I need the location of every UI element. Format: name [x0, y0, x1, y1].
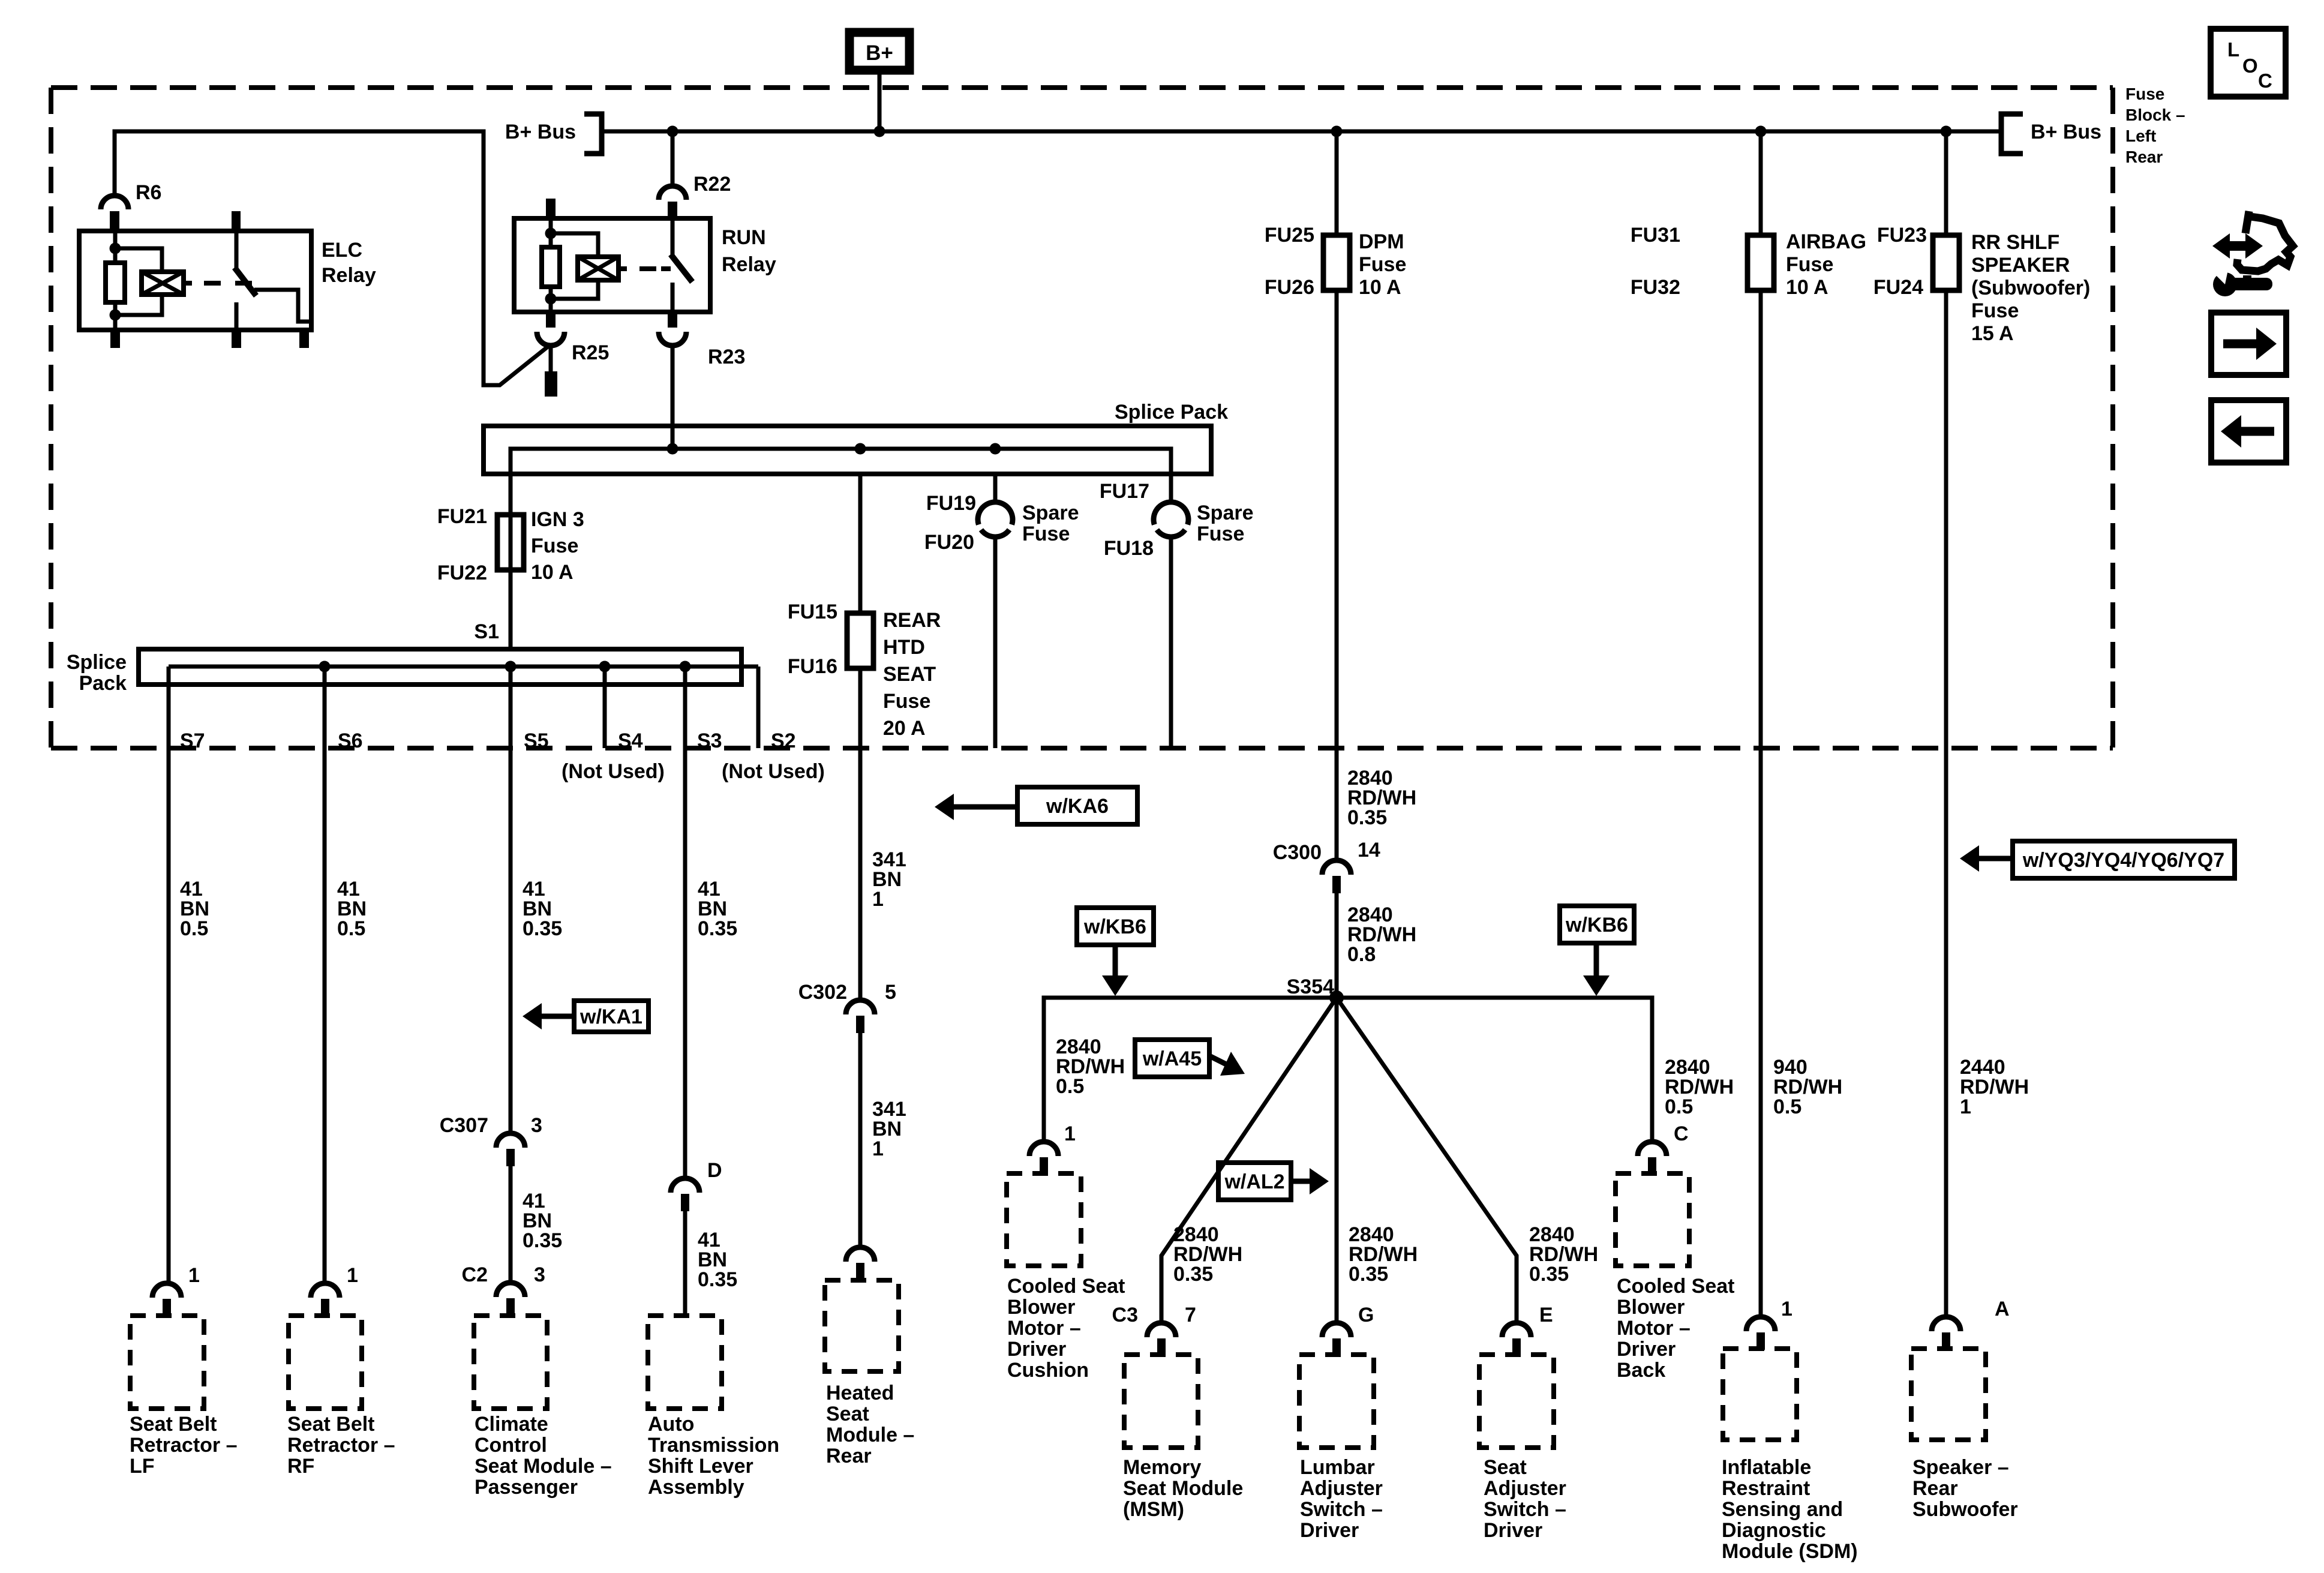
svg-text:REAR: REAR — [883, 609, 941, 632]
svg-text:1: 1 — [1960, 1095, 1971, 1118]
svg-text:Fuse: Fuse — [883, 690, 930, 713]
svg-text:Spare: Spare — [1197, 502, 1254, 524]
svg-text:0.5: 0.5 — [337, 917, 365, 940]
svg-text:Module –: Module – — [826, 1424, 914, 1446]
svg-text:Seat: Seat — [1484, 1456, 1527, 1479]
svg-text:FU18: FU18 — [1104, 537, 1154, 560]
svg-text:w/KA1: w/KA1 — [580, 1005, 642, 1028]
svg-text:R6: R6 — [136, 181, 161, 204]
svg-text:FU25: FU25 — [1265, 224, 1314, 247]
svg-text:Back: Back — [1617, 1359, 1665, 1382]
svg-text:HTD: HTD — [883, 636, 925, 659]
svg-text:C307: C307 — [440, 1114, 488, 1137]
svg-text:w/AL2: w/AL2 — [1224, 1170, 1284, 1193]
svg-text:FU20: FU20 — [924, 531, 974, 554]
svg-text:Driver: Driver — [1300, 1519, 1359, 1542]
svg-text:1: 1 — [872, 888, 884, 911]
svg-text:C3: C3 — [1112, 1304, 1138, 1326]
svg-text:Blower: Blower — [1617, 1296, 1685, 1319]
svg-text:Fuse: Fuse — [1359, 253, 1406, 276]
svg-text:S5: S5 — [524, 730, 549, 752]
svg-text:Seat: Seat — [826, 1403, 869, 1425]
svg-text:Splice Pack: Splice Pack — [1115, 401, 1228, 424]
svg-text:(Not Used): (Not Used) — [562, 760, 665, 783]
svg-text:Adjuster: Adjuster — [1300, 1477, 1383, 1500]
svg-text:LF: LF — [130, 1455, 155, 1478]
svg-text:Adjuster: Adjuster — [1484, 1477, 1566, 1500]
svg-text:0.5: 0.5 — [180, 917, 208, 940]
svg-text:Splice: Splice — [67, 651, 127, 674]
svg-text:Motor –: Motor – — [1007, 1317, 1081, 1340]
svg-text:Retractor –: Retractor – — [287, 1434, 395, 1457]
svg-text:14: 14 — [1358, 839, 1380, 861]
svg-text:Rear: Rear — [826, 1445, 872, 1467]
svg-text:L: L — [2227, 38, 2239, 61]
svg-text:Driver: Driver — [1484, 1519, 1542, 1542]
svg-text:Heated: Heated — [826, 1382, 894, 1404]
svg-text:15 A: 15 A — [1971, 322, 2014, 345]
svg-text:R22: R22 — [693, 173, 731, 196]
svg-text:Blower: Blower — [1007, 1296, 1075, 1319]
svg-text:3: 3 — [531, 1114, 542, 1137]
svg-text:Seat Module: Seat Module — [1123, 1477, 1243, 1500]
svg-text:(Subwoofer): (Subwoofer) — [1971, 277, 2090, 299]
svg-text:S4: S4 — [618, 730, 643, 752]
svg-text:FU19: FU19 — [926, 492, 976, 515]
svg-text:S7: S7 — [180, 730, 205, 752]
svg-text:w/KA6: w/KA6 — [1046, 795, 1109, 818]
svg-text:C302: C302 — [798, 981, 847, 1004]
svg-text:SEAT: SEAT — [883, 663, 936, 686]
svg-text:Seat Belt: Seat Belt — [287, 1413, 375, 1436]
svg-text:0.8: 0.8 — [1347, 943, 1376, 966]
svg-text:w/KB6: w/KB6 — [1083, 915, 1146, 938]
svg-text:FU26: FU26 — [1265, 276, 1314, 299]
svg-text:0.35: 0.35 — [523, 917, 562, 940]
svg-text:Spare: Spare — [1022, 502, 1079, 524]
svg-text:Retractor –: Retractor – — [130, 1434, 238, 1457]
svg-text:Motor –: Motor – — [1617, 1317, 1691, 1340]
svg-text:AIRBAG: AIRBAG — [1786, 230, 1866, 253]
svg-text:Pack: Pack — [79, 672, 127, 695]
svg-text:(Not Used): (Not Used) — [722, 760, 825, 783]
svg-text:3: 3 — [534, 1263, 545, 1286]
svg-text:0.35: 0.35 — [1347, 806, 1387, 829]
svg-text:1: 1 — [872, 1137, 884, 1160]
svg-text:Switch –: Switch – — [1484, 1498, 1566, 1521]
svg-text:ELC: ELC — [322, 239, 362, 262]
svg-text:Transmission: Transmission — [648, 1434, 779, 1457]
svg-text:C: C — [2258, 70, 2272, 92]
svg-text:0.5: 0.5 — [1056, 1075, 1084, 1098]
svg-text:FU31: FU31 — [1631, 224, 1680, 247]
svg-text:10 A: 10 A — [1359, 276, 1401, 299]
svg-text:1: 1 — [1064, 1122, 1076, 1145]
svg-text:IGN 3: IGN 3 — [531, 508, 584, 531]
svg-text:Cushion: Cushion — [1007, 1359, 1089, 1382]
svg-text:FU17: FU17 — [1100, 480, 1149, 503]
svg-text:Fuse: Fuse — [1971, 299, 2019, 322]
svg-text:FU15: FU15 — [788, 601, 837, 623]
svg-text:DPM: DPM — [1359, 230, 1404, 253]
svg-text:Subwoofer: Subwoofer — [1912, 1498, 2018, 1521]
svg-text:Fuse: Fuse — [1786, 253, 1833, 276]
svg-text:S1: S1 — [474, 620, 499, 643]
svg-text:S6: S6 — [338, 730, 363, 752]
svg-text:Passenger: Passenger — [475, 1476, 578, 1499]
svg-text:Relay: Relay — [322, 264, 376, 287]
svg-text:C: C — [1674, 1122, 1689, 1145]
svg-text:1: 1 — [1781, 1298, 1792, 1320]
svg-text:w/A45: w/A45 — [1142, 1047, 1202, 1070]
svg-text:0.5: 0.5 — [1773, 1095, 1801, 1118]
svg-text:Control: Control — [475, 1434, 547, 1457]
svg-text:S3: S3 — [697, 730, 722, 752]
svg-text:0.35: 0.35 — [1173, 1263, 1213, 1286]
svg-text:Assembly: Assembly — [648, 1476, 744, 1499]
svg-text:S2: S2 — [771, 730, 796, 752]
svg-text:w/YQ3/YQ4/YQ6/YQ7: w/YQ3/YQ4/YQ6/YQ7 — [2022, 849, 2224, 872]
svg-text:1: 1 — [347, 1264, 358, 1287]
svg-text:Seat Module –: Seat Module – — [475, 1455, 612, 1478]
svg-text:1: 1 — [188, 1264, 200, 1287]
svg-text:Inflatable: Inflatable — [1722, 1456, 1811, 1479]
svg-text:0.35: 0.35 — [523, 1229, 562, 1252]
svg-text:FU16: FU16 — [788, 655, 837, 678]
svg-text:Restraint: Restraint — [1722, 1477, 1810, 1500]
svg-text:Driver: Driver — [1007, 1338, 1066, 1361]
svg-text:0.35: 0.35 — [1529, 1263, 1569, 1286]
svg-text:Fuse: Fuse — [531, 535, 578, 557]
svg-text:Relay: Relay — [722, 253, 776, 276]
svg-text:0.35: 0.35 — [1349, 1263, 1388, 1286]
svg-text:Speaker –: Speaker – — [1912, 1456, 2009, 1479]
svg-text:Rear: Rear — [1912, 1477, 1958, 1500]
svg-text:(MSM): (MSM) — [1123, 1498, 1184, 1521]
svg-text:C300: C300 — [1273, 841, 1322, 864]
svg-text:Switch –: Switch – — [1300, 1498, 1383, 1521]
svg-text:Lumbar: Lumbar — [1300, 1456, 1375, 1479]
svg-text:D: D — [707, 1159, 722, 1182]
svg-text:B+ Bus: B+ Bus — [2031, 121, 2101, 143]
svg-text:E: E — [1539, 1304, 1553, 1326]
svg-text:Left: Left — [2125, 127, 2156, 145]
svg-text:Rear: Rear — [2125, 148, 2163, 166]
svg-text:Fuse: Fuse — [2125, 85, 2164, 103]
svg-text:Driver: Driver — [1617, 1338, 1676, 1361]
svg-text:10 A: 10 A — [531, 561, 574, 584]
svg-text:Fuse: Fuse — [1022, 523, 1070, 545]
svg-text:O: O — [2242, 55, 2258, 77]
svg-text:5: 5 — [885, 981, 896, 1004]
svg-text:w/KB6: w/KB6 — [1565, 914, 1628, 936]
svg-text:Climate: Climate — [475, 1413, 548, 1436]
svg-text:SPEAKER: SPEAKER — [1971, 254, 2070, 277]
svg-text:FU23: FU23 — [1877, 224, 1927, 247]
svg-text:Auto: Auto — [648, 1413, 694, 1436]
svg-text:B+: B+ — [866, 41, 893, 65]
svg-text:7: 7 — [1185, 1304, 1196, 1326]
svg-text:G: G — [1358, 1304, 1374, 1326]
svg-text:FU21: FU21 — [437, 505, 487, 528]
svg-text:B+ Bus: B+ Bus — [505, 121, 576, 143]
svg-text:Memory: Memory — [1123, 1456, 1201, 1479]
svg-text:S354: S354 — [1287, 975, 1334, 998]
svg-text:FU32: FU32 — [1631, 276, 1680, 299]
svg-text:20 A: 20 A — [883, 717, 926, 740]
svg-text:Sensing and: Sensing and — [1722, 1498, 1843, 1521]
svg-text:R25: R25 — [572, 341, 609, 364]
svg-text:0.35: 0.35 — [698, 917, 737, 940]
svg-text:10 A: 10 A — [1786, 276, 1828, 299]
svg-text:Shift Lever: Shift Lever — [648, 1455, 753, 1478]
svg-text:0.35: 0.35 — [698, 1268, 737, 1291]
svg-text:RUN: RUN — [722, 226, 766, 249]
svg-text:R23: R23 — [708, 346, 745, 368]
svg-text:Module (SDM): Module (SDM) — [1722, 1540, 1858, 1563]
svg-text:Cooled Seat: Cooled Seat — [1617, 1275, 1734, 1298]
svg-text:0.5: 0.5 — [1665, 1095, 1693, 1118]
svg-text:C2: C2 — [462, 1263, 488, 1286]
svg-text:FU22: FU22 — [437, 562, 487, 584]
svg-text:RR SHLF: RR SHLF — [1971, 231, 2059, 254]
svg-text:RF: RF — [287, 1455, 314, 1478]
svg-text:A: A — [1995, 1298, 2010, 1320]
svg-text:Diagnostic: Diagnostic — [1722, 1519, 1826, 1542]
svg-text:Cooled Seat: Cooled Seat — [1007, 1275, 1125, 1298]
svg-text:Fuse: Fuse — [1197, 523, 1244, 545]
svg-text:Block –: Block – — [2125, 106, 2185, 124]
svg-text:FU24: FU24 — [1873, 276, 1923, 299]
svg-text:Seat Belt: Seat Belt — [130, 1413, 217, 1436]
